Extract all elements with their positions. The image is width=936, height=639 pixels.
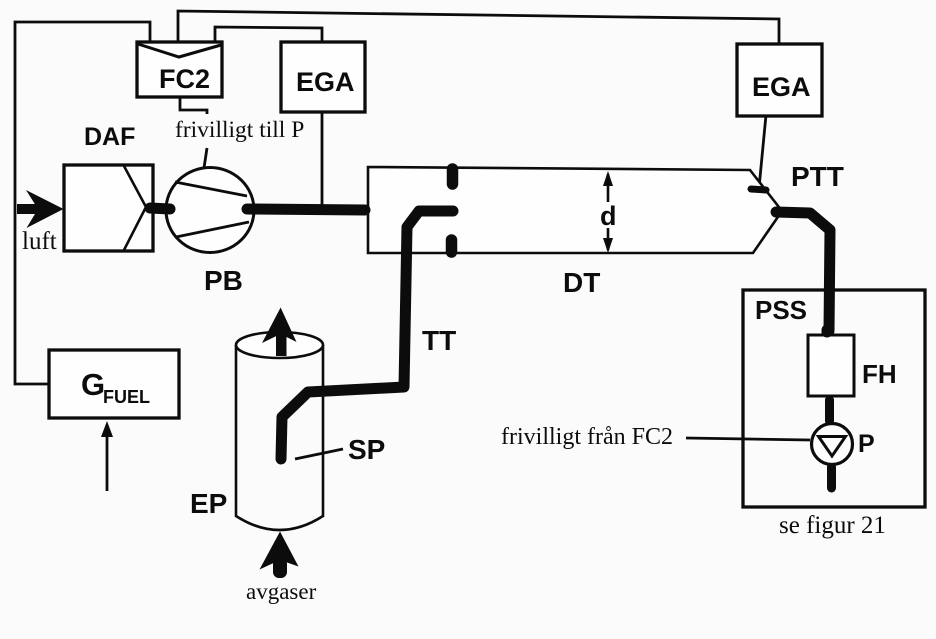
svg-text:TT: TT: [422, 325, 456, 356]
svg-text:EGA: EGA: [296, 67, 355, 97]
svg-text:PTT: PTT: [791, 161, 844, 192]
svg-text:PB: PB: [204, 265, 243, 296]
svg-text:luft: luft: [22, 228, 57, 255]
svg-text:DAF: DAF: [84, 123, 135, 151]
svg-text:FC2: FC2: [159, 64, 210, 94]
svg-text:se figur 21: se figur 21: [779, 512, 886, 539]
svg-text:FUEL: FUEL: [103, 387, 150, 407]
svg-text:avgaser: avgaser: [246, 579, 317, 604]
svg-text:FH: FH: [862, 359, 897, 389]
svg-text:EGA: EGA: [752, 72, 811, 102]
svg-text:frivilligt från FC2: frivilligt från FC2: [501, 424, 673, 450]
svg-text:P: P: [858, 430, 875, 458]
svg-text:frivilligt till P: frivilligt till P: [175, 117, 304, 143]
svg-text:DT: DT: [563, 267, 600, 298]
svg-text:d: d: [600, 201, 617, 231]
svg-text:EP: EP: [190, 488, 227, 519]
svg-text:SP: SP: [348, 434, 385, 465]
svg-text:G: G: [81, 367, 105, 402]
svg-text:PSS: PSS: [755, 295, 807, 325]
